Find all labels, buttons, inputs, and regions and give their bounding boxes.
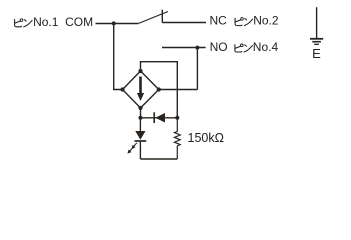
node NO junction (195, 46, 199, 50)
LED emission arrow (127, 143, 136, 154)
ground E bar3 (314, 43, 319, 45)
resistor R 150k zigzag (174, 118, 180, 159)
svg-text:150kΩ: 150kΩ (188, 131, 224, 145)
label pin No.4 katakana pin (235, 44, 253, 52)
label pin No.2 katakana pin (235, 18, 253, 26)
wire bridge top loop (141, 62, 178, 118)
bridge internal current arrow (137, 77, 144, 102)
node diode row right (175, 116, 179, 120)
wire NC (162, 22, 206, 24)
svg-text:No.2: No.2 (253, 14, 279, 28)
node bridge bottom vertex (138, 106, 142, 110)
node bridge top vertex (138, 69, 142, 73)
diode (triangle) (155, 113, 165, 123)
wire bridge right vertex to NO vertical (159, 89, 198, 91)
svg-text:NC: NC (210, 14, 228, 28)
wire bottom rail (140, 158, 177, 160)
svg-text:NO: NO (210, 40, 228, 54)
switch NC fixed contact tick (161, 10, 163, 23)
diode (cathode bar) (153, 112, 155, 123)
LED cathode bar (135, 140, 147, 142)
wire COM vertical to bridge left vertex (114, 23, 123, 89)
ground E stem (316, 7, 318, 38)
wire COM horizontal (96, 23, 139, 25)
node bridge right vertex (157, 87, 161, 91)
switch movable contact (blade) (138, 12, 168, 24)
node diode row left (139, 116, 143, 120)
node bridge left vertex (120, 87, 124, 91)
wire LED cathode (139, 142, 141, 159)
ground E bar1 (310, 38, 323, 40)
wire LED anode (139, 118, 141, 131)
wire bridge bottom vertical (140, 108, 142, 118)
svg-text:E: E (312, 46, 321, 61)
ground E bar2 (312, 41, 321, 43)
label pin No.1 katakana pin (15, 19, 33, 27)
LED triangle (135, 131, 145, 140)
bridge rectifier diamond (123, 71, 159, 108)
node COM junction (112, 21, 116, 25)
wire NO (162, 47, 206, 49)
svg-text:COM: COM (65, 15, 93, 29)
wire NO vertical to bridge right branch (196, 48, 198, 90)
svg-text:No.4: No.4 (253, 40, 279, 54)
wire diode row (141, 117, 178, 119)
svg-text:No.1: No.1 (33, 15, 59, 29)
